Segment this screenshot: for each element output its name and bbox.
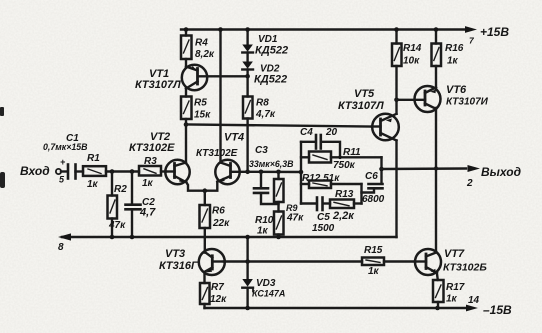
label C2 value (139, 197, 156, 219)
svg-text:R4: R4 (195, 38, 208, 49)
svg-text:R1: R1 (87, 153, 100, 164)
svg-text:+15В: +15В (480, 25, 509, 39)
svg-text:47к: 47к (108, 220, 126, 231)
wire VT4 collector to +15 (218, 27, 223, 162)
svg-text:КТ3107И: КТ3107И (446, 97, 489, 108)
resistor R16 (432, 27, 442, 87)
transistor VT3 (199, 249, 225, 275)
svg-text:С3: С3 (255, 145, 268, 156)
svg-text:КТ3107Л: КТ3107Л (338, 100, 384, 112)
transistor VT1 (182, 65, 248, 90)
capacitor C3 (254, 170, 279, 205)
svg-text:1к: 1к (446, 294, 458, 305)
svg-text:6800: 6800 (362, 194, 385, 205)
svg-text:1к: 1к (257, 226, 269, 237)
svg-text:2: 2 (466, 178, 473, 189)
label VT4 type (196, 132, 244, 160)
label VT6 type (446, 84, 489, 108)
label VD3 type (252, 278, 285, 299)
svg-text:2,2к: 2,2к (332, 210, 355, 222)
svg-text:VT5: VT5 (354, 88, 375, 100)
svg-text:VT3: VT3 (165, 248, 185, 260)
label VT5 type (338, 88, 384, 112)
svg-text:VT6: VT6 (446, 84, 467, 96)
transistor VT5 (372, 114, 399, 141)
resistor R1 (83, 166, 139, 176)
svg-text:10к: 10к (403, 56, 420, 67)
svg-text:С5: С5 (317, 212, 330, 223)
label C6 value (362, 171, 385, 205)
wire VT5 collector down to common (395, 141, 397, 238)
input terminal pin 5 (56, 169, 67, 174)
svg-text:0,7мк×15В: 0,7мк×15В (43, 142, 88, 152)
resistor R17 (433, 273, 444, 310)
wire output (382, 165, 481, 172)
svg-text:1к: 1к (368, 266, 380, 277)
label R2 value (108, 184, 127, 231)
svg-text:+: + (60, 157, 66, 167)
label R7 value (210, 282, 227, 305)
transistor VT6 (397, 86, 441, 112)
label R4 value (195, 38, 215, 61)
resistor R4 (181, 27, 192, 66)
svg-text:R11: R11 (343, 147, 361, 158)
label R16 value (445, 43, 464, 67)
label C3 value (249, 145, 294, 169)
label R6 value (212, 206, 230, 230)
svg-text:КТ3102Б: КТ3102Б (443, 262, 487, 274)
resistor R8 (243, 76, 253, 174)
svg-text:КТ316Г: КТ316Г (159, 260, 199, 272)
svg-text:1к: 1к (447, 56, 459, 67)
svg-text:Вход: Вход (20, 164, 50, 178)
resistor R14 (392, 27, 402, 100)
label R13 value (312, 189, 355, 234)
label VT3 type (159, 248, 199, 272)
node emitters junction (203, 188, 208, 193)
svg-text:33мк×6,3В: 33мк×6,3В (249, 159, 294, 169)
label Вход pin 5 (20, 157, 66, 185)
resistor R3 (139, 166, 166, 176)
svg-text:Выход: Выход (481, 165, 521, 179)
svg-text:R16: R16 (445, 43, 464, 54)
svg-text:8: 8 (58, 242, 64, 253)
label R5 value (194, 98, 211, 121)
svg-text:8,2к: 8,2к (195, 49, 215, 60)
zener diode VD3 (242, 235, 253, 311)
svg-text:R3: R3 (144, 156, 157, 167)
svg-text:КД522: КД522 (255, 45, 288, 57)
svg-text:47к: 47к (286, 213, 304, 224)
svg-text:R10: R10 (255, 215, 274, 226)
label +15V pin 7 (469, 25, 509, 46)
resistor R9 (274, 170, 284, 212)
wire VT2 collector (185, 125, 187, 163)
label R15 value (364, 245, 383, 277)
svg-text:1к: 1к (142, 178, 154, 189)
svg-text:12к: 12к (210, 294, 227, 305)
svg-text:С4: С4 (300, 127, 313, 138)
svg-text:R2: R2 (114, 184, 127, 195)
svg-text:1к: 1к (87, 179, 99, 190)
label Выход pin 2 (466, 165, 521, 189)
wire VT2 collector to VT5 base (186, 125, 372, 127)
label R12 value (302, 173, 340, 184)
svg-text:С6: С6 (365, 171, 378, 182)
resistor R13 (330, 200, 362, 209)
svg-text:R9: R9 (286, 203, 298, 213)
resistor R12 (301, 181, 362, 204)
resistor R10 (274, 212, 284, 240)
svg-text:КД522: КД522 (254, 74, 287, 86)
svg-text:20: 20 (325, 127, 338, 138)
wire VT5 emitter to R14 node (394, 98, 399, 114)
label VT7 type (443, 248, 487, 274)
svg-text:4,7к: 4,7к (255, 109, 276, 120)
label common pin 8 (58, 242, 64, 253)
label VD2 type (254, 64, 287, 86)
label R14 value (403, 43, 422, 67)
label R1 value (87, 153, 100, 190)
label R11 value (333, 147, 361, 171)
svg-text:VT4: VT4 (224, 132, 244, 144)
label R9 value (286, 203, 304, 224)
svg-text:1500: 1500 (312, 223, 335, 234)
diode VD2 (242, 62, 253, 79)
svg-text:R14: R14 (403, 43, 422, 54)
svg-text:VD1: VD1 (258, 34, 278, 45)
capacitor C4 branch (301, 135, 340, 157)
svg-text:4,7: 4,7 (139, 207, 156, 219)
label VT1 type (135, 68, 181, 91)
capacitor C1 (68, 165, 83, 179)
label -15V pin 14 (468, 295, 512, 317)
capacitor C5 (301, 198, 330, 211)
resistor R7 (200, 272, 210, 308)
resistor R5 (181, 89, 192, 127)
label VT2 type (129, 131, 175, 154)
label R3 value (142, 156, 157, 189)
resistor R15 (362, 258, 415, 266)
svg-text:R5: R5 (194, 98, 207, 109)
svg-text:КТ3102Е: КТ3102Е (196, 148, 238, 159)
resistor R6 (200, 191, 211, 253)
transistor VT4 (205, 160, 240, 191)
svg-text:VD3: VD3 (256, 278, 276, 289)
diode VD1 (242, 27, 253, 61)
node feedback bus left (299, 142, 304, 204)
svg-text:15к: 15к (194, 110, 211, 121)
svg-text:14: 14 (468, 295, 480, 306)
svg-text:750к: 750к (333, 160, 356, 171)
wire +15V top rail (181, 28, 466, 30)
svg-text:КТ3102Е: КТ3102Е (129, 142, 175, 154)
transistor VT2 (165, 160, 205, 191)
wire VT4 base node (240, 171, 302, 174)
terminal arrow +15V pin 7 (465, 26, 477, 33)
label C1 value (43, 133, 88, 152)
transistor VT7 (415, 249, 441, 275)
svg-text:КС147А: КС147А (252, 289, 285, 299)
wire -15V bottom rail (205, 305, 479, 312)
capacitor C6 (362, 184, 383, 193)
svg-text:VT7: VT7 (444, 248, 465, 260)
svg-text:R12 51к: R12 51к (302, 173, 340, 184)
capacitor C2 (126, 172, 141, 240)
label VD1 type (255, 34, 288, 57)
wire VT3 base line (224, 259, 362, 264)
svg-text:R13: R13 (335, 189, 354, 200)
label R17 value (446, 282, 465, 305)
svg-text:–15В: –15В (483, 303, 512, 317)
wire VT6 collector / VT7 collector (434, 108, 438, 251)
svg-text:R15: R15 (364, 245, 383, 256)
node R1-R3 junction (110, 169, 135, 174)
label R10 value (255, 215, 274, 237)
svg-text:22к: 22к (212, 218, 230, 229)
label C4 value (300, 127, 338, 138)
svg-text:R6: R6 (212, 206, 225, 217)
wire bottom common line (pin 8) (58, 233, 397, 240)
svg-text:R8: R8 (256, 98, 269, 109)
svg-text:R7: R7 (211, 282, 224, 293)
label R8 value (255, 98, 276, 121)
wire network right bus (379, 157, 384, 183)
resistor R11 (301, 152, 382, 163)
resistor R2 (108, 172, 118, 240)
svg-text:КТ3107Л: КТ3107Л (135, 79, 181, 91)
svg-text:R17: R17 (446, 282, 465, 293)
